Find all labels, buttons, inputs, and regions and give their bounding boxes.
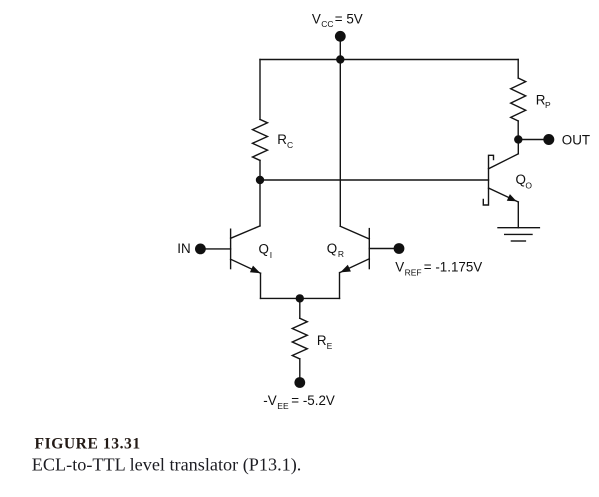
wire: QO emitter to ground [517, 202, 519, 228]
wire: QI collector vertical to RC node [259, 180, 261, 226]
wire: QR base to VREF terminal [369, 248, 399, 250]
junction OUT node [514, 135, 522, 143]
terminal IN dot [195, 244, 206, 255]
svg-text:-V: -V [263, 393, 276, 408]
resistor RC [253, 119, 268, 160]
arrow QR emitter [340, 265, 351, 273]
svg-text:REF: REF [405, 267, 422, 277]
wire: middle vertical VCC to QR collector [339, 60, 341, 227]
transistor QO emitter diagonal [489, 188, 519, 202]
wire: right branch vertical to RP [517, 60, 519, 79]
transistor QI emitter diagonal [231, 259, 261, 273]
wire: node to QO base [260, 179, 489, 181]
svg-text:V: V [395, 259, 404, 274]
wire: VCC stub [339, 38, 341, 60]
svg-text:V: V [312, 11, 321, 26]
svg-text:IN: IN [177, 241, 190, 256]
transistor QI collector diagonal [231, 226, 260, 238]
wire: OUT node down to QO collector elbow [517, 140, 519, 154]
terminal VCC dot [335, 31, 346, 42]
junction node A: RC bottom / QI collector / QO base [256, 176, 264, 184]
wire: IN terminal to QI base [200, 248, 230, 250]
transistor QO collector diagonal [489, 154, 519, 169]
svg-text:P: P [545, 100, 551, 110]
transistor QR base bar [368, 229, 370, 269]
svg-text:CC: CC [321, 19, 333, 29]
svg-text:O: O [525, 180, 532, 190]
svg-text:EE: EE [277, 401, 289, 411]
svg-text:E: E [327, 341, 333, 351]
transistor QR collector diagonal [340, 226, 369, 239]
wire: top VCC rail [260, 59, 518, 61]
svg-text:FIGURE 13.31: FIGURE 13.31 [35, 435, 141, 452]
junction emitter node [296, 294, 304, 302]
wire: left branch upper vertical to RC [259, 60, 261, 120]
arrow QO emitter [507, 194, 517, 201]
transistor QI base bar [230, 229, 232, 268]
wire: emitter bottom rail [261, 297, 340, 299]
svg-text:OUT: OUT [562, 132, 590, 147]
svg-text:I: I [270, 250, 272, 260]
terminal VREF dot [394, 243, 405, 254]
wire: node to RE [299, 298, 301, 318]
junction dot at VCC rail [336, 55, 344, 63]
transistor QR emitter diagonal [340, 259, 370, 273]
svg-text:= -1.175V: = -1.175V [424, 259, 483, 274]
transistor QO base bar (Schottky hooks) [483, 155, 493, 205]
terminal OUT dot [543, 134, 554, 145]
wire: QR emitter down [339, 273, 341, 299]
svg-text:ECL-to-TTL level translator (P: ECL-to-TTL level translator (P13.1). [32, 454, 302, 475]
svg-text:= 5V: = 5V [335, 11, 363, 26]
svg-text:Q: Q [327, 241, 337, 256]
svg-text:Q: Q [259, 242, 269, 257]
terminal VEE dot [294, 377, 305, 388]
resistor RP [511, 78, 526, 121]
svg-text:R: R [338, 249, 344, 259]
svg-text:Q: Q [516, 172, 526, 187]
svg-text:R: R [277, 132, 287, 147]
svg-text:= -5.2V: = -5.2V [291, 393, 335, 408]
wire: OUT node to OUT terminal [518, 139, 549, 141]
wire: RC bottom to node [259, 160, 261, 180]
wire: RE bottom to VEE terminal [299, 359, 301, 380]
svg-text:R: R [317, 333, 327, 348]
resistor RE [292, 318, 307, 359]
svg-text:C: C [287, 140, 293, 150]
ground symbol [498, 227, 539, 229]
wire: RP bottom to OUT node [517, 121, 519, 140]
arrow QI emitter [250, 266, 261, 274]
wire: QI emitter down [260, 273, 262, 298]
